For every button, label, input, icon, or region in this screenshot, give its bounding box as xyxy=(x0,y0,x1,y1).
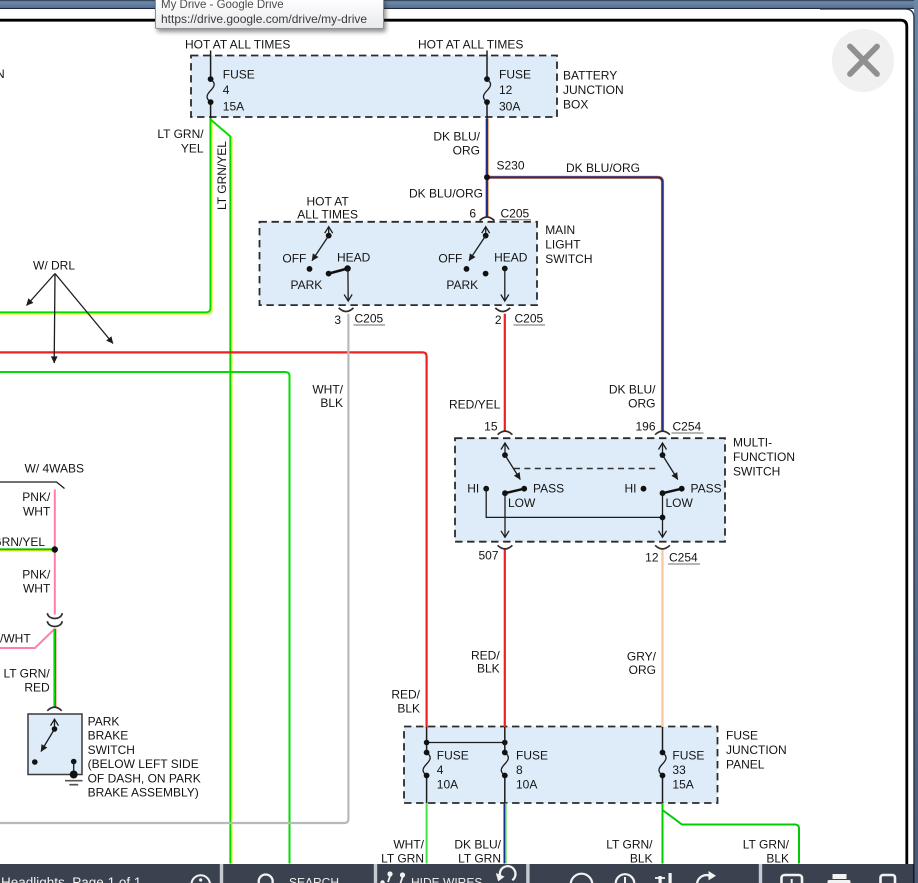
wire: W/4WABS black lead from edge xyxy=(0,482,65,489)
node: junction dot HI crossover xyxy=(660,515,666,521)
multi-function left: wiper arrow to PASS xyxy=(505,455,520,479)
fuse F4 fuse junction panel (symbol) xyxy=(423,753,430,776)
multi-function left: output arrow pin 507 xyxy=(504,493,506,537)
multi-function right: wiper arrow to PASS xyxy=(663,455,678,479)
main light switch right: HEAD contact xyxy=(502,266,508,272)
multi-function: mechanical link (dashed) xyxy=(514,468,658,470)
connector C205 pin 6 arc xyxy=(480,217,495,221)
bottom toolbar xyxy=(0,864,914,883)
toolbar icon: clock xyxy=(616,874,635,883)
wire LT GRN/RED down to park brake switch xyxy=(53,629,55,707)
svg-text:Headlights, Page 1 of 1: Headlights, Page 1 of 1 xyxy=(1,875,141,883)
main light switch right: PARK contact xyxy=(483,271,489,277)
wire PNK/WHT upper xyxy=(54,490,56,615)
multi-function right: entry arrow pin 196 xyxy=(662,443,664,455)
main light switch right: entry arrow pin 6 xyxy=(485,227,487,236)
wire RED main horizontal then down to fuse junction panel xyxy=(0,352,427,727)
wire: bus between fuse 4 and fuse 8 xyxy=(427,742,505,744)
toolbar icon: circle tool xyxy=(571,873,593,883)
toolbar divider xyxy=(220,864,223,883)
multi-function right: output arrow pin 12 xyxy=(662,493,664,537)
multi-function right: LOW-PASS link xyxy=(663,489,682,494)
multi-function switch box outline xyxy=(455,438,725,542)
W/ DRL arrow to upper green wire xyxy=(27,274,56,306)
window chrome: right steel-blue strip xyxy=(914,0,918,883)
connector C254 pin 12 arc xyxy=(655,545,670,549)
wire LT GRN/YEL right branch (diagonal then down full height) xyxy=(212,121,232,864)
wire DK BLU/LT GRN below fuse 8 xyxy=(503,803,505,864)
main light switch box outline xyxy=(260,222,538,305)
battery junction box outline xyxy=(191,56,557,118)
wire DK BLU/ORG from fuse 12 down to C205 pin 6 xyxy=(485,119,488,217)
connector C254 pin 15 arc xyxy=(498,431,513,435)
wire: feed into fuse 4 (battery junction box) xyxy=(210,51,212,80)
wire GRY/ORG from pin 12 down into fuse junction panel xyxy=(661,549,663,727)
main light switch left: entry arrow xyxy=(328,227,330,236)
park brake switch: lever arrow xyxy=(41,729,55,752)
wire LT GRN/YEL spur from edge to splice xyxy=(0,550,55,552)
connector C205 pin 3 arc xyxy=(339,308,354,312)
toolbar divider xyxy=(374,864,377,883)
wire: fuse 33 bottom link xyxy=(662,776,664,804)
main light switch left: wiper arrow to OFF xyxy=(312,236,329,261)
wire: feed into fuse 12 xyxy=(486,51,488,80)
wire LT GRN horizontal lower (to x=0) then down full height xyxy=(0,372,290,864)
connector arc at park brake switch pin xyxy=(47,707,61,711)
node: junction dot fuse 8 xyxy=(502,740,508,746)
toolbar icon: info xyxy=(191,875,210,883)
multi-function left: PASS contact xyxy=(521,486,527,492)
main light switch right: output arrow pin 2 xyxy=(504,269,506,301)
connector C254 pin 196 arc xyxy=(655,431,670,435)
wire WHT/LT GRN below fuse 4 xyxy=(426,803,428,864)
toolbar icon: hide wires pins xyxy=(387,871,392,876)
multi-function left: LOW-PASS link xyxy=(505,489,524,494)
multi-function left: HI contact xyxy=(483,486,489,492)
node S230 junction dot xyxy=(484,174,490,180)
wire PNK/WHT from edge diagonal to inline connector xyxy=(0,629,55,648)
main light switch left: output arrow pin 3 xyxy=(347,269,349,301)
main light switch left: HEAD contact xyxy=(344,265,350,271)
main light switch right: OFF contact xyxy=(464,266,470,272)
window chrome: dark edge right of toolbar xyxy=(913,864,915,883)
multi-function right: HI contact xyxy=(641,486,647,492)
W/ DRL arrow to lower green wire xyxy=(53,274,56,364)
toolbar icon: adjust bars xyxy=(659,876,662,883)
toolbar icon: undo xyxy=(500,866,516,880)
main light switch right: wiper arrow to OFF xyxy=(469,236,486,261)
main light switch left: OFF contact xyxy=(307,266,313,272)
svg-text:SEARCH: SEARCH xyxy=(289,875,339,883)
toolbar icon: download xyxy=(782,875,803,883)
fuse F8 fuse junction panel (symbol) xyxy=(501,753,508,776)
browser tooltip xyxy=(155,0,384,29)
main light switch left: PARK contact xyxy=(326,271,332,277)
wire WHT/BLK from main light switch pin 3 down and left to edge xyxy=(0,314,348,823)
toolbar icon: save xyxy=(881,875,896,883)
wire: fuse 12 to box bottom xyxy=(486,102,488,119)
fuse F12 battery junction box (symbol) xyxy=(483,79,490,102)
main light switch left: PARK-HEAD link xyxy=(329,269,348,274)
svg-text:HIDE WIRES: HIDE WIRES xyxy=(411,875,482,883)
wire LT GRN/BLK below fuse 33 straight xyxy=(662,803,664,864)
connector: inline connector (double arcs) xyxy=(47,613,62,618)
wire RED/BLK from pin 507 down into fuse junction panel xyxy=(504,549,506,728)
wire LT GRN/BLK branch to right then down xyxy=(663,810,800,864)
close button xyxy=(832,29,895,92)
wire LT GRN/YEL left branch (vertical then left to edge) xyxy=(0,119,212,314)
multi-function left: LOW contact xyxy=(502,490,508,496)
wire: fuse 8 bottom link xyxy=(504,776,506,804)
park brake switch: lower contact dot xyxy=(32,759,38,765)
toolbar divider xyxy=(526,864,529,883)
wire: fuse 33 top link xyxy=(662,727,664,753)
multi-function right: LOW contact xyxy=(660,490,666,496)
fuse junction panel box outline xyxy=(404,727,718,804)
wire: fuse 4 top link inside panel xyxy=(426,727,428,753)
wire: fuse 4 to box bottom xyxy=(210,102,212,119)
wire DK BLU/ORG from S230 right then down to C254 pin 196 xyxy=(487,177,663,430)
park brake switch: right contact and ground lead xyxy=(71,759,77,765)
toolbar icon: magnifier xyxy=(259,874,273,883)
connector C254 pin 507 arc xyxy=(498,545,513,549)
toolbar icon: printer xyxy=(833,874,847,879)
park brake switch: entry arrow xyxy=(54,720,56,730)
node: splice dot on PNK/WHT xyxy=(52,546,58,552)
window chrome: top steel-blue bar xyxy=(0,0,918,9)
node: junction dot fuse 4 xyxy=(424,740,430,746)
fuse F4 battery junction box (symbol) xyxy=(207,79,214,102)
ground symbol xyxy=(65,780,83,782)
wire RED/YEL from pin 2 down to pin 15 xyxy=(504,314,506,431)
wire: fuse 8 top link xyxy=(504,727,506,753)
multi-function right: PASS contact xyxy=(679,486,685,492)
connector C205 pin 2 arc xyxy=(495,308,510,312)
wire: fuse 4 bottom link xyxy=(426,776,428,804)
toolbar divider xyxy=(759,864,762,883)
fuse F33 fuse junction panel (symbol) xyxy=(659,753,666,776)
toolbar icon: share arrow xyxy=(697,875,711,883)
multi-function: HI crossover wire xyxy=(486,489,662,518)
multi-function left: entry arrow pin 15 xyxy=(504,443,506,455)
W/ DRL arrow to red wire xyxy=(55,274,113,344)
park brake switch box outline xyxy=(28,714,82,775)
